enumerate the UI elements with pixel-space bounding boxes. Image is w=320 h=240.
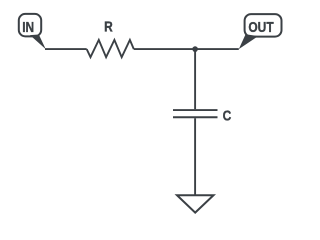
capacitor C (173, 107, 232, 123)
svg-text:R: R (104, 18, 113, 34)
wire IN to resistor (45, 48, 87, 50)
svg-text:C: C (223, 107, 232, 123)
node junction dot (192, 46, 198, 52)
svg-text:OUT: OUT (248, 19, 273, 35)
wire junction to capacitor (194, 49, 196, 109)
ground (177, 195, 214, 212)
wire capacitor to ground (194, 118, 196, 195)
wire resistor to OUT (134, 48, 239, 50)
node IN terminal (19, 14, 46, 49)
resistor R (87, 18, 134, 57)
svg-text:IN: IN (22, 19, 34, 35)
node OUT terminal (239, 14, 282, 49)
